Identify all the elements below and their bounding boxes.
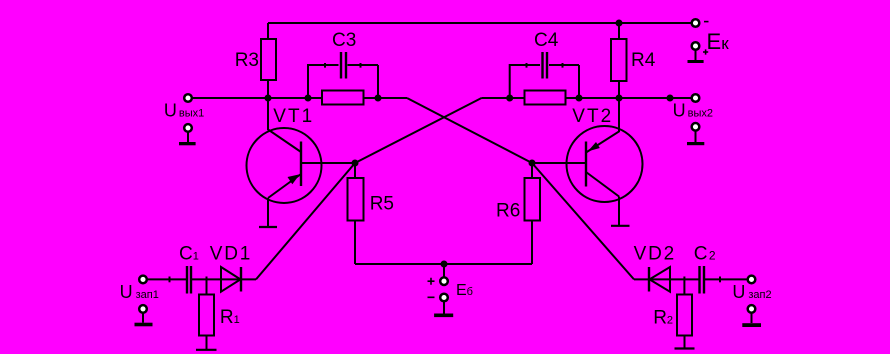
svg-text:R4: R4 xyxy=(631,50,656,71)
svg-text:VT1: VT1 xyxy=(273,106,314,127)
svg-text:VT2: VT2 xyxy=(572,106,613,127)
svg-text:R3: R3 xyxy=(235,50,259,71)
svg-text:C4: C4 xyxy=(534,30,559,51)
svg-text:VD2: VD2 xyxy=(634,244,676,265)
svg-text:VD1: VD1 xyxy=(210,243,252,264)
svg-text:R5: R5 xyxy=(370,194,394,215)
svg-text:C3: C3 xyxy=(332,30,356,51)
svg-text:R6: R6 xyxy=(496,201,520,222)
